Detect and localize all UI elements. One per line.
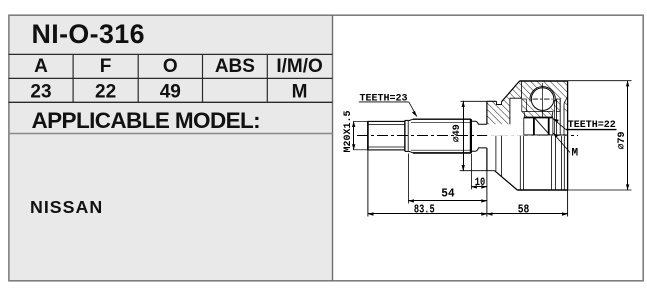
TEETH=22 underline — [566, 129, 617, 131]
svg-text:49: 49 — [160, 82, 181, 103]
neck bottom profile — [472, 148, 487, 151]
table column line 2 — [137, 54, 139, 102]
svg-text:54: 54 — [441, 186, 454, 200]
M20X1.5 ext top — [353, 120, 368, 122]
white clearance ring around ball — [530, 86, 555, 111]
thread minor diameter line bottom — [369, 146, 405, 148]
mouth ring lower 2 — [563, 136, 565, 190]
ball horizontal center tick — [533, 98, 553, 100]
mouth ring line 1 — [556, 99, 558, 135]
dia49 dimension line — [463, 101, 465, 171]
shoulder bottom edge — [405, 150, 409, 152]
centerline — [357, 135, 578, 137]
dim 10 left ext — [471, 154, 473, 190]
dim 83.5 and 58 line — [368, 213, 568, 215]
spline root line bottom — [411, 149, 471, 151]
svg-text:NISSAN: NISSAN — [30, 197, 103, 217]
svg-text:NI-O-316: NI-O-316 — [32, 19, 145, 49]
spline bottom edge — [413, 152, 471, 154]
thread left face thick line — [367, 121, 369, 149]
svg-text:23: 23 — [30, 82, 51, 103]
arrow M20 top — [352, 121, 355, 127]
circlip groove line 2 — [555, 136, 557, 190]
dim 58 right ext — [567, 190, 569, 217]
dia49 ext top — [461, 100, 487, 102]
rim bottom edge — [557, 134, 568, 136]
arrow 83.5 left — [368, 212, 374, 215]
neck top profile — [472, 121, 487, 124]
spline chamfer top — [409, 119, 413, 120]
arrow 54 right — [481, 199, 487, 202]
dia79 dimension line — [627, 81, 629, 190]
arrow M20 bottom — [352, 144, 355, 150]
svg-text:58: 58 — [518, 203, 530, 217]
spline end face thick line — [470, 119, 472, 153]
body right face — [567, 81, 569, 190]
bore bottom line — [524, 134, 553, 136]
bell cone top edge — [502, 81, 520, 102]
table column line 3 — [202, 54, 204, 102]
left table panel gray background — [10, 16, 332, 280]
arrow 83.5 right — [481, 212, 487, 215]
arrow teeth23 leader — [412, 111, 417, 117]
inner race hatched wedge — [524, 112, 553, 118]
ball track arc — [530, 87, 555, 102]
svg-text:O: O — [163, 56, 178, 77]
boot groove line 2 lower — [501, 136, 503, 177]
M leader line — [553, 133, 570, 153]
body left face lower segment — [486, 148, 488, 171]
svg-text:A: A — [34, 56, 48, 77]
cone end line 2 — [522, 136, 524, 190]
boot groove line 1 lower — [495, 136, 497, 171]
TEETH=23 underline — [359, 101, 409, 103]
svg-text:ABS: ABS — [215, 56, 255, 77]
svg-text:10: 10 — [475, 177, 486, 189]
circlip groove line 1 — [550, 136, 552, 190]
cavity left wall line — [509, 98, 511, 124]
white rim interior right of race — [553, 112, 568, 135]
dim 10 line — [471, 186, 487, 188]
svg-text:22: 22 — [95, 82, 116, 103]
track groove edge line left — [521, 81, 523, 98]
arrow 58 left — [487, 212, 493, 215]
mouth ring line 2 — [559, 99, 561, 135]
cage strip left — [522, 99, 527, 112]
cavity white band right of ball pocket — [560, 99, 564, 136]
shoulder step face — [404, 120, 406, 151]
inner race bore top thick line — [524, 117, 553, 119]
arrow teeth22 leader — [553, 119, 559, 123]
svg-text:TEETH=22: TEETH=22 — [568, 120, 616, 131]
arrow dia79 top — [626, 81, 629, 87]
ball — [531, 88, 554, 111]
boot groove notch — [497, 101, 502, 104]
lower half: lip bottom edge with dim extension — [460, 170, 495, 172]
spline chamfer bottom — [409, 151, 413, 153]
dia79 ext top — [568, 80, 632, 82]
table horizontal line under applicable model row — [9, 133, 333, 135]
table horizontal line under title — [9, 53, 333, 55]
svg-text:M20X1.5: M20X1.5 — [343, 110, 354, 152]
body bottom flat edge — [517, 189, 567, 191]
mouth chamfer — [564, 97, 568, 104]
arrow 10 right — [481, 185, 487, 188]
cavity shoulder line — [510, 97, 522, 99]
cavity white cutout left of ball track — [487, 98, 522, 136]
dim 83.5 left ext — [367, 150, 369, 217]
table column line 1 — [72, 54, 74, 102]
M20X1.5 ext bottom — [353, 149, 368, 151]
arrow dia79 bottom — [626, 184, 629, 190]
TEETH=22 leader — [553, 119, 566, 130]
shoulder top edge — [405, 119, 409, 121]
svg-text:83.5: 83.5 — [414, 203, 435, 217]
arrowheads — [352, 81, 629, 216]
arrow 10 left — [471, 185, 477, 188]
bore white area — [522, 118, 553, 136]
dia79 ext bottom — [568, 189, 632, 191]
lip top edge — [487, 100, 497, 102]
svg-text:∅49: ∅49 — [452, 124, 463, 142]
thread minor diameter line top — [369, 123, 405, 125]
spline section TEETH=23 top edge — [413, 118, 471, 120]
table column line 4 — [266, 54, 268, 102]
bore spline diagonal — [535, 118, 550, 135]
common ext at body face — [486, 171, 488, 217]
svg-text:F: F — [100, 56, 112, 77]
svg-text:M: M — [292, 82, 308, 103]
table horizontal line under header row — [9, 77, 333, 79]
body left face upper segment — [486, 101, 488, 124]
mouth inner vertical — [563, 104, 565, 135]
threaded stub shaft M20X1.5 outline — [368, 121, 405, 149]
bore left thin wall — [523, 118, 525, 135]
ball vertical center line — [542, 83, 544, 118]
svg-text:I/M/O: I/M/O — [276, 56, 322, 77]
bore left thick wall — [533, 118, 535, 135]
cage strip right — [557, 99, 561, 112]
rim inner vertical small — [554, 100, 556, 135]
svg-text:TEETH=23: TEETH=23 — [360, 93, 408, 104]
arrow M leader — [553, 133, 558, 138]
arrow 58 right — [562, 212, 568, 215]
svg-text:M: M — [572, 148, 579, 160]
svg-text:∅79: ∅79 — [617, 131, 628, 149]
lower cone edge — [495, 171, 518, 190]
panel divider — [332, 15, 334, 281]
shoulder second line — [407, 120, 409, 151]
table horizontal line under value row — [9, 101, 333, 103]
mouth ring lower 1 — [561, 136, 563, 190]
arrow 54 left — [408, 199, 414, 202]
svg-text:APPLICABLE MODEL:: APPLICABLE MODEL: — [32, 108, 261, 133]
M20X1.5 dimension line — [353, 121, 355, 149]
bore right thin wall — [552, 118, 554, 135]
cone end line 1 — [519, 136, 521, 190]
bore right thick wall — [548, 118, 550, 135]
dim 54 left ext — [408, 154, 410, 204]
dim 54 line — [408, 200, 487, 202]
arrow dia49 top — [462, 101, 465, 107]
spline root line top — [411, 121, 471, 123]
TEETH=23 leader — [409, 102, 417, 117]
body hatched upper section — [487, 81, 568, 136]
body top flat edge — [520, 80, 568, 82]
arrow dia49 bottom — [462, 165, 465, 171]
